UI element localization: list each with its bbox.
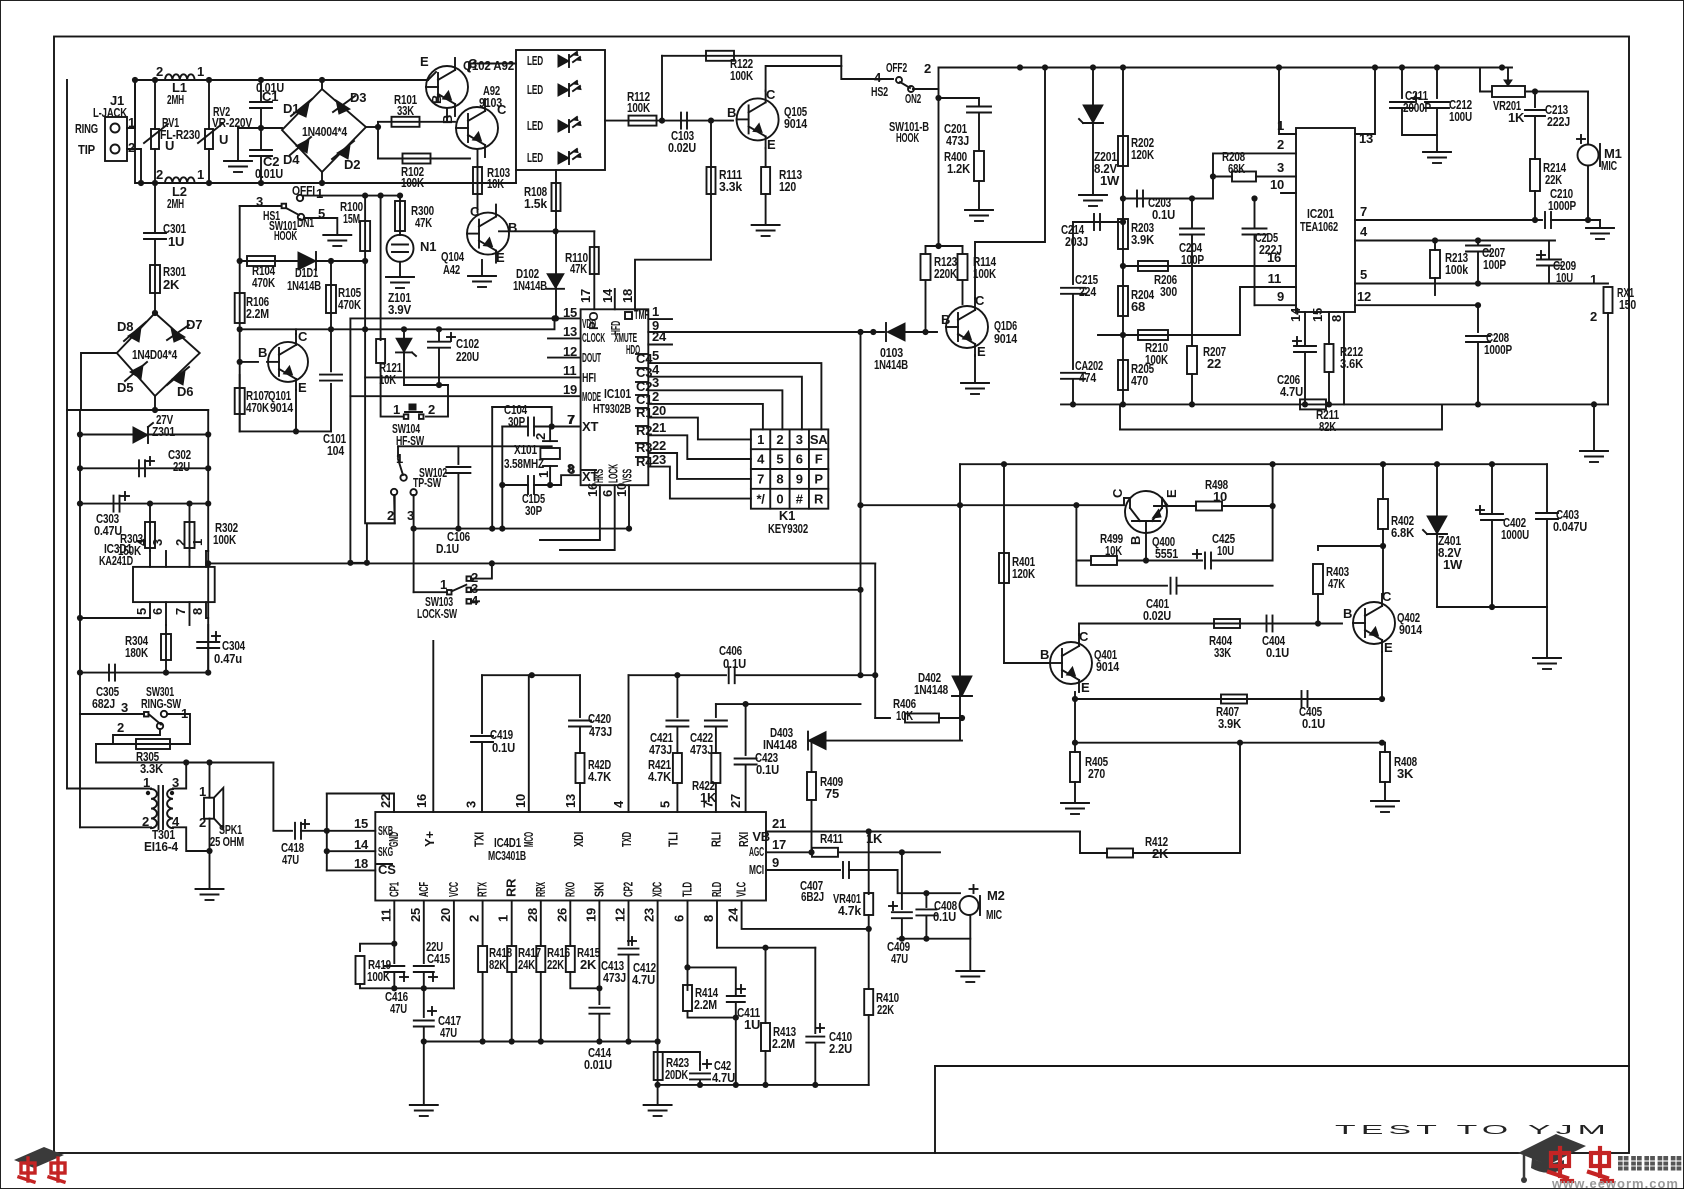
svg-text:MCO: MCO <box>521 832 536 847</box>
wire c424 <box>699 1064 701 1070</box>
svg-text:2.2U: 2.2U <box>829 1041 852 1056</box>
svg-text:RRX: RRX <box>533 882 548 897</box>
transistor Q103 9103 <box>456 107 498 149</box>
svg-text:R411: R411 <box>820 831 843 846</box>
wire C416 bottom <box>393 972 395 988</box>
svg-text:18: 18 <box>354 856 368 871</box>
wire R tops <box>926 245 963 247</box>
svg-text:3.3k: 3.3k <box>719 179 743 194</box>
resistor R414 2.2M <box>683 985 692 1011</box>
svg-text:26: 26 <box>554 908 569 922</box>
wire rr2 <box>511 972 513 1042</box>
wire R406 row <box>875 717 890 719</box>
wire TEA bottom rail <box>1061 403 1608 405</box>
wire C106 col <box>457 446 459 464</box>
wire R498 right <box>1222 505 1273 507</box>
wire L2 rail <box>135 80 516 183</box>
potentiometer VR201 1K <box>1492 86 1525 97</box>
wire left sub rail <box>79 410 81 827</box>
svg-text:22: 22 <box>1207 356 1221 371</box>
wire C421 col <box>676 675 678 717</box>
connector J1 L-JACK <box>105 117 127 161</box>
wire rail1085 <box>658 1084 869 1086</box>
wire R202 trunk <box>1122 68 1124 405</box>
wire C422 col <box>715 704 717 717</box>
wire R409 bottom <box>811 800 813 852</box>
wire SW102 pin2 <box>393 495 396 523</box>
svg-text:C: C <box>298 329 308 344</box>
wire R408 col <box>1384 743 1386 752</box>
IC U-IC201 TEA1062 <box>1296 128 1355 312</box>
svg-text:E: E <box>1384 640 1393 655</box>
wire C301 top <box>154 183 156 233</box>
svg-text:4: 4 <box>652 362 660 377</box>
svg-text:M2: M2 <box>987 888 1005 903</box>
svg-text:MCI: MCI <box>749 862 764 877</box>
svg-text:473J: 473J <box>946 133 969 148</box>
svg-text:KEY9302: KEY9302 <box>768 521 808 536</box>
svg-text:5551: 5551 <box>1155 546 1178 561</box>
wire SW103 pin3 <box>471 589 861 591</box>
svg-text:120K: 120K <box>1012 566 1036 581</box>
svg-text:82K: 82K <box>1319 419 1337 434</box>
wire SPK col <box>209 763 211 798</box>
capacitor C2 0.01U <box>250 149 272 151</box>
svg-text:25: 25 <box>408 908 423 922</box>
keypad K1 KEY9302 <box>751 429 828 508</box>
wire Z301 row <box>80 434 208 436</box>
svg-text:0.1U: 0.1U <box>933 909 956 924</box>
svg-text:0: 0 <box>776 491 783 506</box>
wire HS1 pin3 <box>240 205 282 207</box>
svg-text:682J: 682J <box>92 696 115 711</box>
svg-text:13: 13 <box>563 324 577 339</box>
wire C401 right <box>1177 585 1273 587</box>
svg-text:C: C <box>1110 488 1125 498</box>
transistor Q106 9014 <box>946 306 988 348</box>
wire C415 bottom <box>423 972 425 988</box>
wire C401 row <box>1076 561 1167 586</box>
svg-text:4.7K: 4.7K <box>588 769 612 784</box>
svg-text:8: 8 <box>776 472 783 487</box>
svg-text:14: 14 <box>354 837 369 852</box>
svg-text:100K: 100K <box>627 100 651 115</box>
wire IC301 pin8 <box>206 602 208 618</box>
svg-text:VSS: VSS <box>620 469 635 483</box>
wire pin12 <box>1355 304 1478 306</box>
wire R113 gnd <box>765 194 767 224</box>
svg-text:470K: 470K <box>246 400 270 415</box>
wire vlc <box>742 901 869 929</box>
wire right sub rail <box>207 410 209 673</box>
transistor Q401 9014 <box>1050 642 1092 684</box>
svg-text:RING-SW: RING-SW <box>141 696 182 711</box>
wire VR201 left <box>1480 68 1492 92</box>
svg-text:2: 2 <box>924 61 931 76</box>
svg-text:22U: 22U <box>173 459 190 474</box>
wire C102 bottom <box>438 348 440 385</box>
svg-text:9014: 9014 <box>994 331 1018 346</box>
wire rr <box>511 901 513 947</box>
wire R305 to 762 <box>96 744 273 763</box>
capacitor C213 222J <box>1525 109 1545 111</box>
svg-text:3: 3 <box>121 700 128 715</box>
wire Q102 base to Q103 <box>446 108 448 122</box>
wire bridge top <box>321 80 323 89</box>
resistor R205 470 <box>1118 360 1128 390</box>
svg-text:2K: 2K <box>580 957 597 972</box>
wire row938 <box>898 938 971 940</box>
svg-text:6.8K: 6.8K <box>1391 525 1415 540</box>
wire R403 link <box>1318 545 1383 547</box>
wire tld <box>687 901 689 991</box>
svg-text:22K: 22K <box>1545 172 1563 187</box>
wire cp1 <box>393 901 395 964</box>
svg-text:13: 13 <box>1359 131 1373 146</box>
svg-text:1: 1 <box>199 784 206 799</box>
svg-text:B: B <box>1128 536 1143 545</box>
svg-text:F: F <box>815 452 823 467</box>
svg-text:D6: D6 <box>177 384 193 399</box>
svg-text:RLI: RLI <box>709 832 724 847</box>
wire r414b <box>688 1011 736 1018</box>
wire T301 pin4 <box>173 827 210 851</box>
wire r412r <box>1133 743 1240 853</box>
svg-text:4: 4 <box>134 538 149 546</box>
svg-text:MODE: MODE <box>582 389 601 404</box>
wire OFF1 pin1 <box>303 196 400 198</box>
wire SW102 pin1 <box>397 446 399 457</box>
wire C3 <box>648 377 802 430</box>
svg-text:B: B <box>429 95 444 104</box>
svg-text:Z301: Z301 <box>152 424 175 439</box>
svg-text:CP1: CP1 <box>386 882 401 897</box>
svg-text:TXD: TXD <box>619 832 634 847</box>
svg-text:21: 21 <box>652 420 666 435</box>
wire d402trunk <box>959 464 961 740</box>
svg-text:1: 1 <box>757 432 764 447</box>
svg-text:20DK: 20DK <box>665 1067 689 1082</box>
svg-text:MC3401B: MC3401B <box>488 848 526 863</box>
wire pin18 <box>635 260 711 310</box>
wire SW102 pin2 down <box>367 523 395 563</box>
inductor L1 2MH <box>165 74 195 80</box>
svg-text:5: 5 <box>652 348 659 363</box>
wire agc17 <box>766 851 812 853</box>
svg-text:9: 9 <box>1277 289 1284 304</box>
svg-text:TMF: TMF <box>634 307 649 322</box>
wire Q102 E <box>428 72 436 80</box>
svg-text:B: B <box>258 345 267 360</box>
wire r413t <box>765 948 767 1023</box>
wire J1 pin2 <box>127 149 141 183</box>
wire L1 right <box>195 79 261 81</box>
op-amp IC301 KA241D <box>133 567 215 602</box>
wire rail1041 <box>424 1041 658 1043</box>
wire r423gnd <box>657 1085 659 1104</box>
wire R421 bottom <box>676 783 678 812</box>
svg-text:HKS: HKS <box>591 469 606 483</box>
svg-text:LED: LED <box>527 150 543 165</box>
svg-text:47U: 47U <box>440 1025 457 1040</box>
svg-text:7: 7 <box>701 801 716 808</box>
svg-text:180K: 180K <box>125 645 149 660</box>
svg-text:CLOCK: CLOCK <box>582 330 605 345</box>
ground under M2 <box>956 970 984 972</box>
wire SW103 pin4 <box>471 600 479 602</box>
wire C2 bottom <box>260 156 262 183</box>
wire C215-CA202 <box>1072 294 1074 369</box>
svg-text:4: 4 <box>1360 224 1368 239</box>
svg-text:470K: 470K <box>338 297 362 312</box>
resistor R204 68 <box>1118 286 1128 316</box>
wire R114 bottom <box>962 281 964 304</box>
wire R208 row <box>1123 265 1296 267</box>
svg-text:100K: 100K <box>730 68 754 83</box>
wire C207 col <box>1477 241 1479 246</box>
svg-text:D4: D4 <box>283 152 300 167</box>
wire rail from HS2 <box>938 68 940 90</box>
capacitor C407 682J <box>842 862 844 878</box>
svg-text:0.02U: 0.02U <box>668 140 696 155</box>
wire R420 bottom <box>579 783 581 812</box>
svg-text:68K: 68K <box>1228 161 1246 176</box>
wire r410t <box>868 929 870 989</box>
wire row947 <box>717 947 815 949</box>
wire cp22 <box>628 955 630 1042</box>
wire C211 col <box>1401 68 1403 99</box>
wire rail464 <box>960 463 1547 465</box>
svg-text:HOOK: HOOK <box>274 228 297 243</box>
wire VSS down <box>628 485 630 528</box>
wire long 563 <box>208 562 875 564</box>
wire Z101 col <box>403 329 405 338</box>
wire Z101 bottom <box>404 352 448 385</box>
svg-text:RLD: RLD <box>709 882 724 897</box>
wire c411bot <box>735 1003 737 1085</box>
wire C419 bottom <box>481 742 483 812</box>
svg-text:L-JACK: L-JACK <box>93 105 128 120</box>
wire R498 row <box>1154 505 1195 507</box>
wire SW103 pin2 <box>471 563 492 578</box>
svg-text:4.7K: 4.7K <box>648 769 672 784</box>
wire c410t <box>814 948 816 1033</box>
svg-text:2.2M: 2.2M <box>772 1036 795 1051</box>
wire SW102 pin3 down <box>413 495 415 592</box>
svg-text:E: E <box>977 344 986 359</box>
svg-text:82K: 82K <box>489 957 507 972</box>
svg-text:75: 75 <box>825 786 839 801</box>
svg-text:TLD: TLD <box>680 882 695 897</box>
wire pin5 <box>1355 283 1608 285</box>
capacitor C103 0.02U <box>680 113 682 129</box>
wire R210 row <box>1098 287 1296 335</box>
wire R103 col <box>477 150 479 212</box>
svg-text:3: 3 <box>464 801 479 808</box>
wire Y+col <box>432 641 434 812</box>
svg-text:E: E <box>420 54 429 69</box>
wire R107 col <box>239 375 241 431</box>
svg-text:LED: LED <box>527 118 543 133</box>
svg-text:4.7k: 4.7k <box>838 903 862 918</box>
svg-text:22K: 22K <box>877 1002 895 1017</box>
wire C403 bottom <box>1546 519 1548 607</box>
svg-text:3.58MHZ: 3.58MHZ <box>504 456 544 471</box>
svg-text:EI16-4: EI16-4 <box>144 839 179 854</box>
svg-text:5: 5 <box>658 801 673 808</box>
svg-text:1W: 1W <box>1443 557 1463 572</box>
wire R122 row <box>662 56 841 66</box>
wire R111 col <box>710 121 712 260</box>
svg-text:CP2: CP2 <box>621 882 636 897</box>
wire C104 right <box>534 426 581 428</box>
svg-text:1U: 1U <box>744 1017 760 1032</box>
wire trunk HS1 <box>239 206 241 431</box>
wire R402 bottom <box>1382 529 1384 595</box>
wire C425 right <box>1211 464 1273 560</box>
svg-text:15: 15 <box>1310 308 1325 322</box>
wire Q400 base col <box>1145 533 1147 561</box>
svg-text:3: 3 <box>1277 160 1284 175</box>
svg-text:B: B <box>1343 606 1352 621</box>
wire R402 col <box>1382 464 1384 499</box>
svg-text:220K: 220K <box>934 266 958 281</box>
wire R208 link <box>1256 176 1296 178</box>
transistor Q402 9014 <box>1353 602 1395 644</box>
svg-text:RXO: RXO <box>562 882 577 897</box>
wire Q401 base <box>1004 662 1050 664</box>
svg-text:1: 1 <box>393 402 400 417</box>
svg-text:ACF: ACF <box>416 882 431 897</box>
wire Q104 E gnd <box>481 260 483 275</box>
wire rrx <box>540 901 542 947</box>
svg-text:2: 2 <box>117 720 124 735</box>
wire 446 row <box>398 445 552 447</box>
wire R406 right <box>939 717 962 719</box>
wire left rail <box>66 80 68 410</box>
svg-text:A42: A42 <box>443 262 460 277</box>
wire C420-R420 <box>579 727 581 753</box>
wire trunk860 <box>860 332 862 675</box>
wire C212 col <box>1436 68 1438 99</box>
wire top rail <box>135 79 428 81</box>
wire acf <box>423 901 425 964</box>
capacitor C1 0.01U <box>250 101 272 103</box>
svg-text:470K: 470K <box>252 275 276 290</box>
svg-text:222J: 222J <box>1547 114 1570 129</box>
svg-text:1: 1 <box>316 186 323 201</box>
svg-text:7: 7 <box>173 608 188 615</box>
wire R212 bottom <box>1328 372 1330 404</box>
wire IC301 pin3 <box>165 551 167 567</box>
ground near C2 <box>224 160 252 162</box>
svg-text:12: 12 <box>613 908 628 922</box>
svg-text:4.7U: 4.7U <box>632 972 655 987</box>
wire R302 col <box>189 504 191 551</box>
wire VR201 arrow <box>1507 68 1509 85</box>
svg-text:3.9K: 3.9K <box>1218 716 1242 731</box>
svg-text:VLC: VLC <box>734 882 749 897</box>
svg-text:1N414B: 1N414B <box>874 357 908 372</box>
svg-text:270: 270 <box>1088 766 1105 781</box>
wire C207 bottom <box>1477 252 1479 284</box>
svg-text:D8: D8 <box>117 319 133 334</box>
wire bridge bottom <box>321 172 323 183</box>
capacitor C301 1U <box>144 232 166 234</box>
svg-text:LOCK-SW: LOCK-SW <box>417 606 458 621</box>
svg-text:10: 10 <box>614 483 629 497</box>
wire rail704 <box>716 703 861 705</box>
diode D102 1N414B <box>547 274 564 289</box>
svg-text:220U: 220U <box>456 349 479 364</box>
wire C417 col <box>423 988 425 1017</box>
wire T301 pin1 <box>67 788 151 790</box>
wire R104 row <box>240 260 300 262</box>
wire IC301 pin6 <box>165 602 167 625</box>
svg-text:D3: D3 <box>350 90 366 105</box>
svg-text:25 OHM: 25 OHM <box>210 834 244 849</box>
svg-text:9: 9 <box>772 855 779 870</box>
wire E row <box>240 430 331 432</box>
svg-text:19: 19 <box>583 908 598 922</box>
svg-text:100K: 100K <box>401 175 425 190</box>
resistor R404 33K <box>1214 619 1240 628</box>
wire SW301 pin1 <box>167 714 190 744</box>
svg-text:1: 1 <box>652 304 659 319</box>
svg-text:0.01U: 0.01U <box>584 1057 612 1072</box>
svg-text:9014: 9014 <box>784 116 808 131</box>
wire HKS down <box>540 485 600 540</box>
wire IC301 pin5 <box>80 602 150 618</box>
svg-text:C415: C415 <box>427 951 450 966</box>
svg-text:XT: XT <box>582 419 598 434</box>
capacitor C415 22U <box>414 965 434 967</box>
svg-text:12: 12 <box>1357 289 1371 304</box>
svg-text:4: 4 <box>757 452 765 467</box>
svg-text:9014: 9014 <box>1399 622 1423 637</box>
svg-text:3K: 3K <box>1397 766 1414 781</box>
wire C213-R214 <box>1534 116 1536 159</box>
wire vr401bot <box>868 915 870 929</box>
svg-text:1K: 1K <box>866 831 883 846</box>
wire X101 col bottom <box>549 466 551 485</box>
svg-text:22: 22 <box>652 438 666 453</box>
svg-text:VB: VB <box>752 829 770 844</box>
svg-text:B: B <box>941 312 950 327</box>
svg-text:2MH: 2MH <box>167 92 184 107</box>
svg-text:47U: 47U <box>891 951 908 966</box>
varistor RV1 FL-R230 <box>151 129 159 149</box>
wire trunk875 <box>874 563 876 718</box>
svg-text:10: 10 <box>1213 489 1227 504</box>
ground under C403 <box>1533 657 1561 659</box>
svg-text:13: 13 <box>563 794 578 808</box>
svg-text:AGC: AGC <box>749 844 764 859</box>
IC U-IC401 MC34018 <box>375 812 766 901</box>
wire RV2 top <box>208 80 210 129</box>
wire D403 row <box>812 740 963 742</box>
microphone M2 MIC <box>970 888 978 890</box>
wire HDI <box>648 331 884 333</box>
wire c424 top <box>658 1052 700 1064</box>
neon lamp N1 <box>387 235 414 262</box>
diode D402 1N4148 <box>952 676 972 696</box>
wire C204 col <box>1191 199 1193 229</box>
wire TXDcol <box>628 675 630 812</box>
wire R121 col <box>380 196 382 340</box>
svg-text:4: 4 <box>874 70 882 85</box>
svg-text:4: 4 <box>611 800 626 808</box>
